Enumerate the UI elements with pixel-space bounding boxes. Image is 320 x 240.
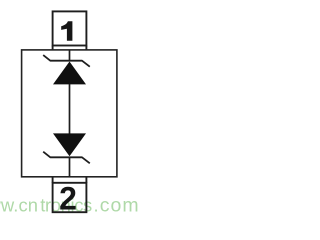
wire: body to pin2 box left wall <box>52 177 54 183</box>
svg-text:www.cn: www.cn <box>0 195 38 216</box>
wire: D2 cathode to body bottom <box>69 157 71 177</box>
svg-text:com: com <box>100 195 140 217</box>
svg-text:.: . <box>94 195 99 216</box>
svg-text:2: 2 <box>59 180 77 216</box>
wire: D1 anode to D2 anode <box>69 84 71 134</box>
wire: body top to D1 cathode <box>69 50 71 61</box>
wire: body to pin2 box right wall <box>85 177 87 183</box>
watermark www.cntronics.com <box>0 195 140 217</box>
diode D1 anode triangle <box>53 62 86 85</box>
pin box 2 <box>53 183 87 212</box>
pin 1 label <box>61 21 72 41</box>
wire: pin1 box left wall to body <box>52 46 54 51</box>
pin box 1 <box>53 11 87 45</box>
wire: pin1 box right wall to body <box>85 46 87 51</box>
diode D1 cathode bar with zener wings <box>43 55 90 67</box>
diode D2 cathode bar with zener wings <box>43 152 90 164</box>
component body outline <box>22 50 117 177</box>
diode D2 anode triangle <box>53 133 86 156</box>
